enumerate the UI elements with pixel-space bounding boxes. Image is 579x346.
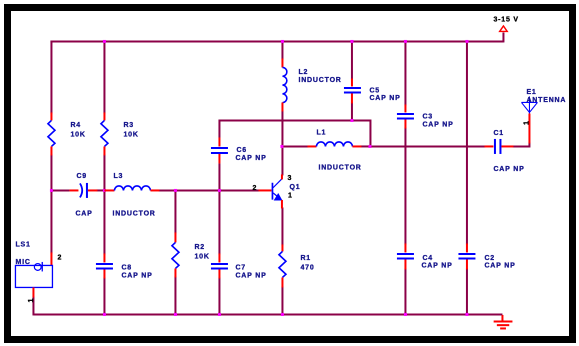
svg-text:INDUCTOR: INDUCTOR — [318, 164, 361, 171]
junction rail x405 — [404, 40, 407, 43]
svg-text:C6: C6 — [236, 147, 247, 154]
wire L2 to tank node — [281, 110, 283, 147]
wire rail to C5 — [351, 40, 353, 79]
capacitor C9 — [69, 183, 97, 198]
svg-text:10K: 10K — [194, 253, 209, 260]
wire dot219 to Q1 base — [218, 189, 259, 191]
capacitor C7 — [211, 253, 228, 278]
svg-text:CAP: CAP — [75, 210, 92, 217]
inductor L2 — [282, 58, 286, 111]
wire R2 to bottom rail — [174, 276, 176, 315]
wire C6 column top corner — [219, 120, 370, 147]
wire rail to L2 — [281, 40, 283, 59]
svg-text:ANTENNA: ANTENNA — [526, 97, 566, 104]
svg-text:CAP NP: CAP NP — [369, 95, 400, 102]
svg-text:MIC: MIC — [15, 259, 30, 266]
wire left column upper (rail to R4) — [50, 40, 52, 113]
capacitor C5 — [344, 78, 361, 103]
inductor L3 — [104, 186, 159, 191]
wire base row dot51 to C9 — [50, 189, 69, 191]
junction bottom rail x104 — [103, 313, 106, 316]
capacitor C4 — [397, 243, 414, 269]
wire rail to C2 — [466, 40, 468, 244]
junction output node x369 y146 — [368, 145, 371, 148]
resistor R2 — [172, 232, 179, 277]
wire LS1 pin 1 to bottom rail — [32, 296, 34, 315]
svg-text:C4: C4 — [422, 255, 433, 262]
svg-text:2: 2 — [252, 185, 257, 192]
svg-text:470: 470 — [300, 264, 314, 271]
svg-text:CAP NP: CAP NP — [121, 272, 152, 279]
svg-text:CAP NP: CAP NP — [422, 121, 453, 128]
wire C3 to C4 — [404, 127, 406, 244]
junction base row x104 — [103, 189, 106, 192]
wire base row to R2 — [174, 189, 176, 233]
junction bottom rail x466 — [465, 313, 468, 316]
wire C2 to bottom rail — [466, 268, 468, 315]
capacitor C2 — [458, 243, 475, 269]
svg-text:R4: R4 — [70, 122, 81, 129]
svg-text:INDUCTOR: INDUCTOR — [298, 77, 341, 84]
resistor R4 — [48, 112, 55, 155]
svg-text:CAP NP: CAP NP — [421, 262, 452, 269]
capacitor C1 — [484, 139, 513, 154]
svg-text:L3: L3 — [113, 173, 123, 180]
junction base row x51 — [50, 189, 53, 192]
junction rail x104 — [103, 40, 106, 43]
wire C4 to bottom rail — [404, 268, 406, 315]
svg-text:CAP NP: CAP NP — [235, 155, 266, 162]
wire tank node to Q1 collector — [281, 145, 283, 175]
resistor R1 — [279, 244, 286, 287]
wire C7 to bottom rail — [218, 277, 220, 315]
junction tank node x282 y146 — [280, 145, 283, 148]
ground symbol — [494, 315, 513, 329]
wire C1 to antenna corner — [512, 142, 529, 146]
svg-text:C2: C2 — [484, 255, 495, 262]
microphone LS1 — [15, 252, 52, 297]
wire left column (R4 to base row) — [50, 154, 52, 191]
antenna E1 — [521, 96, 537, 113]
resistor R3 — [101, 112, 108, 155]
junction base row x175 — [174, 189, 177, 192]
svg-text:C5: C5 — [369, 87, 380, 94]
svg-text:E1: E1 — [526, 89, 536, 96]
svg-text:3-15 V: 3-15 V — [493, 16, 518, 23]
svg-text:3: 3 — [287, 175, 292, 182]
junction rail x351 — [350, 40, 353, 43]
svg-text:10K: 10K — [123, 131, 138, 138]
svg-text:R1: R1 — [300, 255, 311, 262]
junction rail x282 — [281, 40, 284, 43]
svg-text:1: 1 — [28, 298, 35, 303]
junction feedback node x351 y120 — [350, 119, 353, 122]
wire power riser — [502, 32, 504, 42]
inductor L1 — [307, 142, 361, 146]
wire Q1 emitter to R1 — [281, 207, 283, 245]
wire base row to C7 — [218, 189, 220, 254]
wire left column (base row to LS1 pin 2) — [50, 190, 52, 253]
wire R3 column (R3 to base row) — [103, 154, 105, 191]
svg-text:CAP NP: CAP NP — [493, 166, 524, 173]
svg-text:R3: R3 — [123, 122, 134, 129]
wire tank node to L1 — [281, 145, 308, 147]
svg-text:C9: C9 — [76, 173, 87, 180]
power symbol 3-15 V — [500, 26, 508, 32]
wire R3 column upper (rail to R3) — [103, 40, 105, 113]
svg-text:2: 2 — [57, 254, 62, 261]
svg-text:C3: C3 — [422, 113, 433, 120]
svg-text:CAP NP: CAP NP — [484, 262, 515, 269]
svg-text:CAP NP: CAP NP — [235, 272, 266, 279]
wire L1 to corner node — [360, 145, 370, 147]
transistor Q1 — [258, 174, 282, 208]
wire bottom ground rail — [33, 313, 502, 315]
capacitor C8 — [96, 253, 113, 278]
wire R3 column (base row to C8) — [103, 189, 105, 254]
svg-text:L1: L1 — [316, 129, 326, 136]
wire rail to C3 — [404, 40, 406, 105]
svg-text:Q1: Q1 — [289, 184, 300, 191]
svg-text:C7: C7 — [235, 264, 246, 271]
junction bottom rail x405 — [404, 313, 407, 316]
capacitor C6 — [211, 137, 228, 163]
junction base row x219 — [218, 189, 221, 192]
wire top power rail — [50, 40, 503, 42]
wire C6 to base row — [218, 163, 220, 191]
antenna E1 pin 1 — [528, 113, 530, 143]
junction bottom rail x175 — [174, 313, 177, 316]
svg-text:R2: R2 — [194, 244, 205, 251]
wire C5 to feedback node — [351, 102, 353, 121]
junction bottom rail x282 — [281, 313, 284, 316]
wire C9 to dot104 — [96, 189, 105, 191]
junction rail x466 — [465, 40, 468, 43]
svg-text:C8: C8 — [121, 264, 132, 271]
wire L3 to dot175 — [158, 189, 176, 191]
wire R1 to bottom rail — [281, 286, 283, 315]
svg-text:1: 1 — [288, 192, 293, 199]
capacitor C3 — [397, 104, 414, 128]
wire dot175 to dot219 — [174, 189, 220, 191]
wire output node to C1 — [369, 145, 485, 147]
wire C8 to bottom rail — [103, 277, 105, 315]
svg-text:INDUCTOR: INDUCTOR — [112, 210, 155, 217]
svg-text:L2: L2 — [298, 69, 308, 76]
junction bottom rail x219 — [218, 313, 221, 316]
svg-text:1: 1 — [523, 120, 530, 125]
svg-text:LS1: LS1 — [15, 241, 30, 248]
svg-text:C1: C1 — [493, 130, 504, 137]
svg-text:10K: 10K — [70, 131, 85, 138]
